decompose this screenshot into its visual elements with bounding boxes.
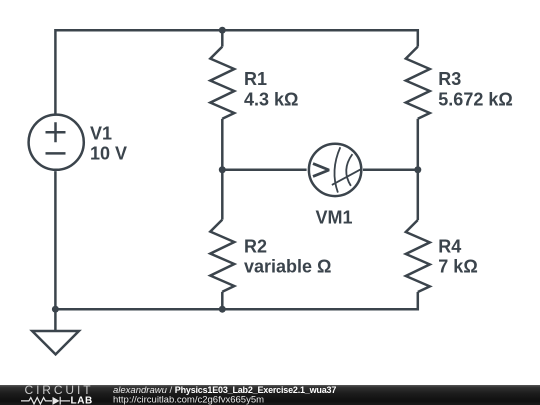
svg-text:LAB: LAB <box>71 396 93 405</box>
footer bar background <box>0 385 540 405</box>
svg-text:variable Ω: variable Ω <box>244 257 331 277</box>
svg-text:V1: V1 <box>90 124 112 144</box>
junction dot at bottom rail / R2 <box>219 306 226 313</box>
wire: R3 bottom lead to middle rail <box>417 119 420 170</box>
svg-text:R4: R4 <box>438 237 461 257</box>
ground symbol triangle <box>32 309 79 354</box>
voltage source V1 minus sign <box>46 152 66 155</box>
voltmeter VM1 needle <box>332 169 361 185</box>
voltmeter VM1 chevron <box>313 164 329 177</box>
footer logo diode triangle <box>53 397 60 405</box>
junction dot at top rail / R1 <box>219 27 226 34</box>
voltmeter VM1 circle <box>309 144 361 196</box>
footer logo resistor-diode squiggle <box>21 397 70 405</box>
svg-text:R1: R1 <box>244 69 267 89</box>
junction dot at middle rail / R3 R4 <box>414 166 421 173</box>
wire: R2 top lead from middle rail <box>221 170 224 220</box>
svg-text:R3: R3 <box>438 69 461 89</box>
wire: left rail below V1 down to bottom-left corner <box>54 171 57 309</box>
wire: bottom rail from ground junction to R4 bottom corner <box>55 292 417 309</box>
resistor R2 <box>210 220 234 292</box>
svg-text:7 kΩ: 7 kΩ <box>438 257 477 277</box>
resistor R4 <box>406 220 430 292</box>
wire: middle rail left segment from R1/R2 junction to VM1 <box>222 169 306 172</box>
voltmeter VM1 dial arc 1 <box>334 147 340 192</box>
wire: middle rail right segment from VM1 to R3/R4 junction <box>363 169 418 172</box>
svg-text:4.3 kΩ: 4.3 kΩ <box>244 89 298 109</box>
voltage source V1 plus sign <box>46 122 66 142</box>
wire: R4 top lead from middle rail <box>417 170 420 220</box>
svg-text:R2: R2 <box>244 237 267 257</box>
voltmeter VM1 dial arc 2 <box>346 154 352 186</box>
resistor R3 <box>406 47 430 119</box>
svg-text:10 V: 10 V <box>90 144 127 164</box>
wire: top rail from V1 top-left corner to R3 top-right corner <box>55 30 417 113</box>
wire: R1 bottom lead to middle rail <box>221 119 224 170</box>
voltage source V1 circle <box>29 115 84 170</box>
svg-text:5.672 kΩ: 5.672 kΩ <box>438 89 513 109</box>
wire: R1 top lead from top rail junction <box>221 30 224 46</box>
junction dot at bottom rail / ground <box>52 306 59 313</box>
wire: R2 bottom lead to bottom rail <box>221 292 224 309</box>
junction dot at middle rail / R1 R2 <box>219 166 226 173</box>
svg-text:http://circuitlab.com/c2g6fvx6: http://circuitlab.com/c2g6fvx665y5m <box>113 395 264 405</box>
svg-text:VM1: VM1 <box>315 208 352 228</box>
resistor R1 <box>210 47 234 119</box>
